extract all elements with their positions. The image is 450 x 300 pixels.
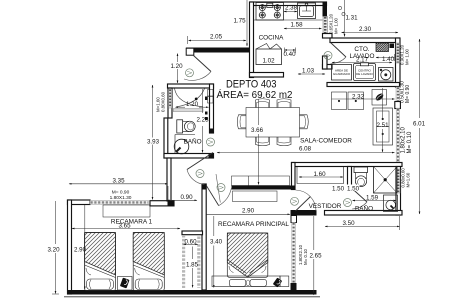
vestidor left riser (292, 163, 296, 190)
2.30 (342, 32, 399, 34)
svg-text:0.40: 0.40 (283, 51, 296, 58)
corner stub below window (323, 34, 333, 39)
svg-text:1.58: 1.58 (290, 22, 303, 29)
2.51 vertical (382, 88, 384, 118)
2.38 (284, 11, 297, 13)
svg-text:0.90: 0.90 (180, 194, 193, 201)
bath1 left wall upper w/ window (168, 88, 172, 118)
svg-text:VESTIDOR: VESTIDOR (309, 203, 342, 210)
column square (395, 102, 401, 109)
3.35 (69, 183, 168, 185)
0.40 bracket (285, 49, 296, 51)
bath1 towel shelves (208, 90, 214, 97)
svg-text:M= 0.10: M= 0.10 (303, 248, 308, 265)
svg-text:SALA-COMEDOR: SALA-COMEDOR (300, 138, 352, 145)
vertical sofa (373, 108, 393, 145)
svg-text:M= 1.00: M= 1.00 (405, 48, 410, 65)
2.17 lavado (332, 62, 392, 64)
svg-text:M= 1.00: M= 1.00 (334, 17, 339, 34)
2.32 (332, 98, 395, 100)
0.90 corridor (167, 199, 197, 201)
chairs bottom (256, 137, 270, 146)
svg-text:0.80X0.60: 0.80X0.60 (161, 91, 166, 112)
svg-text:6.01: 6.01 (413, 121, 426, 128)
2.23 vertical (202, 89, 204, 113)
1.03 (298, 73, 325, 75)
pass corner stub (323, 65, 333, 70)
svg-text:2.90: 2.90 (74, 247, 87, 254)
chairs top (256, 99, 270, 108)
fridge / cabinet kitchen (256, 49, 282, 65)
recamara1 top wall pieces (68, 200, 91, 205)
svg-text:2.32: 2.32 (352, 94, 365, 101)
3.20 vertical (55, 201, 57, 244)
vestidor/bano bottom wall (325, 211, 403, 216)
1.60 closet (299, 176, 343, 178)
master bed (212, 233, 280, 287)
recamara1 window band (90, 201, 149, 205)
bano2 right wall (396, 167, 401, 216)
1.58 (284, 28, 322, 30)
entry door (194, 56, 212, 72)
shower divider (173, 109, 203, 112)
svg-text:3.93: 3.93 (147, 139, 160, 146)
svg-text:2.17: 2.17 (356, 57, 369, 64)
svg-text:RECAMARA PRINCIPAL: RECAMARA PRINCIPAL (218, 221, 289, 228)
svg-text:3.35: 3.35 (112, 178, 125, 185)
6.08 horizontal (217, 152, 395, 154)
kitchen window right (hatched) (323, 17, 328, 34)
1.59 (353, 200, 397, 202)
bano2 sink (384, 195, 398, 212)
closet inside recamara ppal (233, 191, 278, 202)
svg-text:M=1.60: M=1.60 (406, 172, 411, 187)
3.66 vertical (258, 100, 260, 126)
kitchen sink (298, 3, 316, 19)
lavado: area de guardado (332, 65, 352, 81)
recamara1 left wall (68, 200, 72, 294)
L-sofa horizontal cushions (332, 92, 347, 110)
kitchen right wall black top (323, 2, 328, 17)
3.93 vertical (152, 85, 154, 200)
counter edge (254, 19, 323, 21)
svg-text:1.40: 1.40 (382, 56, 395, 63)
bano2 door (352, 188, 368, 202)
kitchen left wall (250, 2, 254, 78)
nook closet above recamara wall (232, 176, 290, 186)
black wall under vestidor door (291, 210, 317, 216)
svg-text:3.65: 3.65 (118, 223, 131, 230)
recamara1 window sill desk (103, 205, 150, 217)
svg-text:2.30: 2.30 (359, 26, 372, 33)
svg-text:1.20: 1.20 (186, 101, 199, 108)
lavado door (331, 43, 347, 58)
sala right wall window band (396, 87, 400, 102)
lavado bottom wall (327, 83, 400, 87)
1.20 bath (175, 106, 185, 108)
recamara ppal door B (206, 185, 219, 205)
2.90 vertical left (84, 205, 86, 244)
svg-text:GUARDADO: GUARDADO (333, 72, 351, 76)
1.85 vertical (192, 247, 194, 260)
2.65 vertical (313, 216, 315, 250)
bed 2 (133, 233, 164, 291)
1.75 vertical top (246, 0, 248, 46)
nightstand recamara1 (118, 277, 133, 291)
bottom exterior wall (68, 290, 317, 295)
bath1 right wall (210, 84, 214, 133)
sala right sliding door band (396, 109, 399, 163)
svg-text:M= 0.10: M= 0.10 (407, 131, 413, 154)
svg-text:1.50: 1.50 (347, 186, 360, 193)
shaft top wall (182, 231, 203, 235)
svg-text:M= 0.90: M= 0.90 (405, 85, 411, 103)
svg-text:1.20: 1.20 (170, 63, 183, 70)
chair left (237, 115, 246, 129)
3.50 (325, 225, 400, 227)
bed 1 (85, 233, 116, 291)
recamara ppal top wall (232, 186, 296, 190)
svg-text:1.59: 1.59 (366, 195, 379, 202)
1.40 bracket (376, 57, 395, 59)
vestidor door (296, 197, 311, 212)
lavado top wall (330, 38, 400, 43)
svg-text:6.08: 6.08 (299, 146, 312, 153)
boiler hatched (376, 43, 389, 52)
svg-text:2.38: 2.38 (285, 5, 298, 12)
svg-text:3.40: 3.40 (210, 239, 223, 246)
svg-text:3.66: 3.66 (251, 127, 264, 134)
stove (256, 3, 284, 21)
pillows (229, 279, 246, 286)
svg-text:COCINA: COCINA (259, 35, 285, 42)
bath1 vanity + sink (175, 135, 195, 154)
svg-text:1.50: 1.50 (332, 186, 345, 193)
lavado right window hatch (396, 43, 400, 63)
2.90 hall (207, 213, 291, 215)
recamara ppal left wall continuous (202, 184, 206, 290)
svg-text:BAÑO: BAÑO (355, 204, 373, 213)
svg-text:3.20: 3.20 (47, 247, 60, 254)
corridor left wall (167, 158, 171, 201)
svg-text:ÁREA= 69.62 m2: ÁREA= 69.62 m2 (217, 88, 293, 101)
corner table + plant (372, 90, 387, 106)
svg-text:3.50: 3.50 (342, 220, 355, 227)
lavado: centro de lavado (354, 64, 376, 81)
3.40 vertical (213, 216, 215, 236)
bath1 shower doors (175, 89, 204, 107)
svg-text:1.85: 1.85 (186, 262, 199, 269)
stub vestidor/bano (348, 167, 352, 189)
1.20 entry vertical (177, 54, 179, 84)
svg-text:1.60: 1.60 (313, 171, 326, 178)
bano2 toilet (354, 167, 368, 173)
svg-text:1.80X1.30: 1.80X1.30 (110, 195, 132, 201)
6.01 vertical right (419, 39, 421, 118)
svg-text:DE LAVADO: DE LAVADO (356, 72, 373, 76)
svg-text:BAÑO: BAÑO (183, 137, 201, 146)
3.65 (72, 228, 180, 230)
lavado right wall (396, 38, 401, 87)
svg-text:0.60: 0.60 (184, 239, 197, 246)
svg-text:2.05: 2.05 (210, 34, 223, 41)
vertical window labels (156, 13, 414, 265)
kitchen top wall (250, 2, 327, 6)
dining table (246, 108, 300, 138)
bath1 toilet (177, 120, 183, 133)
shaft side walls grey (182, 235, 185, 288)
svg-text:1.02: 1.02 (262, 58, 275, 65)
svg-text:1.03: 1.03 (302, 68, 315, 75)
platform (212, 276, 280, 287)
1.31 vertical (344, 0, 346, 37)
svg-text:RECAMARA 1: RECAMARA 1 (111, 219, 153, 226)
entry jamb square (186, 48, 194, 55)
witness verticals small (399, 216, 401, 230)
svg-text:1.80x2.10: 1.80x2.10 (401, 126, 407, 153)
svg-text:2.65: 2.65 (309, 253, 322, 260)
svg-text:2.51: 2.51 (376, 122, 389, 129)
svg-text:1.31: 1.31 (345, 15, 358, 22)
0.60 bracket shaft (184, 243, 198, 245)
master right black block (291, 283, 297, 291)
tiny labels lavado (333, 69, 374, 77)
master sliding door band (292, 223, 296, 284)
svg-text:1.75: 1.75 (233, 18, 246, 25)
chair right (300, 115, 309, 129)
hall door A (187, 153, 213, 170)
svg-text:2.23: 2.23 (196, 117, 209, 124)
svg-text:CTO.: CTO. (354, 46, 369, 53)
nightstand master (280, 276, 289, 287)
vestidor closet (297, 167, 344, 184)
kitchen bottom wall (250, 73, 284, 78)
vestidor top wall (292, 163, 403, 167)
svg-text:2.90: 2.90 (242, 208, 255, 215)
lavado sink (379, 68, 394, 82)
bath1 top wall (168, 84, 214, 88)
entry wall solid (186, 48, 252, 53)
bano2 shower (374, 167, 398, 194)
bath1 left wall lower jog (164, 118, 168, 158)
bath1 bottom wall (164, 154, 214, 159)
svg-text:M= 0.90: M= 0.90 (112, 190, 130, 196)
master right jamb (291, 216, 297, 223)
2.05 (189, 40, 247, 42)
